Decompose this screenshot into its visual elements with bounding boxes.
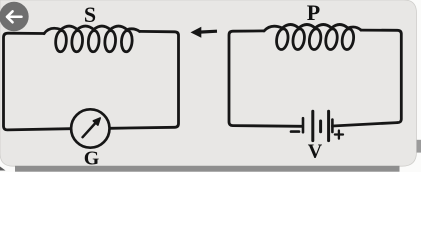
label P xyxy=(307,0,320,25)
corner speck (bottom-left) xyxy=(0,167,6,171)
wire: left side + top-left segment to coil P xyxy=(229,31,302,126)
wire: battery to bottom-right corner xyxy=(333,123,398,126)
svg-text:V: V xyxy=(308,141,323,163)
label S xyxy=(84,2,96,27)
plate long xyxy=(311,111,314,140)
wire: left side + top-left segment to coil S xyxy=(4,33,71,130)
svg-text:G: G xyxy=(84,148,100,170)
label V xyxy=(308,141,323,163)
plate long xyxy=(327,111,330,140)
scrollbar thumb fragment (right edge) xyxy=(417,140,421,153)
inductor P (coil, 5 turns) xyxy=(264,25,361,51)
label - (negative terminal) xyxy=(291,130,299,133)
battery V xyxy=(303,111,332,140)
plate short (middle) xyxy=(319,121,322,132)
wire: coil S to top-right corner and down right side xyxy=(110,31,179,128)
label + (positive terminal) xyxy=(335,131,343,139)
plate short (left terminal) xyxy=(302,118,305,132)
label G xyxy=(84,148,100,170)
arrow (direction from P to S) xyxy=(191,27,218,38)
wire: coil P to top-right corner and down right side xyxy=(361,30,401,123)
background panel xyxy=(0,0,417,166)
back button xyxy=(0,2,29,31)
svg-text:S: S xyxy=(84,2,96,27)
gray bottom bar xyxy=(15,166,400,172)
svg-text:P: P xyxy=(307,0,320,25)
inductor S (coil, 5 turns) xyxy=(44,26,140,52)
plate short (right terminal) xyxy=(331,120,334,133)
galvanometer G xyxy=(71,109,109,147)
